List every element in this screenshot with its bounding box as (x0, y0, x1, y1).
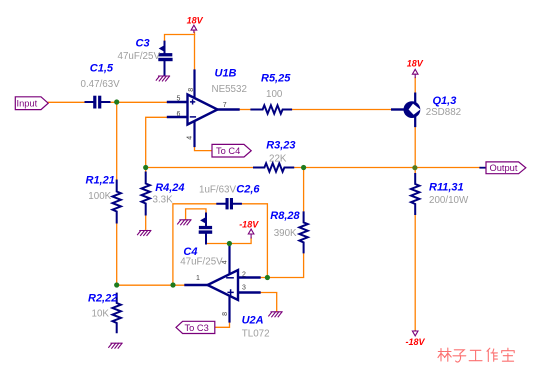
resistor R1,21 100K (113, 181, 121, 223)
wire 18V branch to C3 (165, 35, 195, 42)
wire C1 to U1B pin5 (110, 101, 169, 103)
svg-text:6: 6 (177, 111, 181, 118)
svg-text:U1B: U1B (215, 67, 237, 79)
wire 18V to Q1 collector (414, 78, 416, 94)
ground below R4 (138, 231, 151, 236)
svg-text:2SD882: 2SD882 (426, 107, 461, 118)
resistor R5,25 100 (horizontal) (251, 105, 291, 113)
wire R3 to output port (293, 167, 480, 169)
svg-text:R3,23: R3,23 (266, 139, 295, 151)
svg-text:390K: 390K (274, 228, 297, 239)
junction input node (114, 99, 119, 104)
resistor R8,28 390K (299, 212, 307, 252)
junction R8 top (301, 165, 306, 170)
power +18V symbol (U1B) (191, 25, 197, 32)
svg-text:R4,24: R4,24 (155, 182, 184, 194)
svg-text:R5,25: R5,25 (261, 73, 291, 85)
svg-text:4: 4 (222, 260, 229, 264)
wire R11 to -18V (414, 214, 416, 331)
junction C2 left node (170, 282, 175, 287)
capacitor C1,5 0.47/63V (86, 96, 110, 109)
wire R5 to Q1 base (291, 109, 392, 111)
wire pin2 node to R8 (260, 252, 304, 277)
wire R4 to ground (145, 215, 147, 230)
resistor R2,22 10K (113, 294, 121, 333)
svg-text:To C3: To C3 (185, 323, 209, 333)
wire R8 top to feedback line (303, 168, 305, 213)
svg-text:8: 8 (222, 312, 229, 316)
port To C4 (212, 144, 251, 157)
junction U2A pin2 node (265, 275, 270, 280)
resistor R11,31 200/10W (411, 174, 419, 214)
op-amp U2A TL072 (mirrored) (186, 244, 260, 322)
capacitor C2,6 1uF/63V (217, 198, 241, 209)
transistor Q1,3 2SD882 (392, 94, 420, 126)
svg-text:C2,6: C2,6 (236, 184, 260, 196)
power -18V symbol (bottom) (412, 331, 418, 336)
svg-text:To C4: To C4 (216, 146, 240, 156)
wire U1B pin4 to port To C4 (195, 146, 213, 151)
svg-text:10K: 10K (92, 309, 110, 320)
op-amp U1B NE5532 (168, 71, 239, 147)
wire C4 bottom to -18V node (206, 238, 251, 244)
wire output node to R11 (414, 168, 416, 175)
ground left of C4 (178, 220, 191, 225)
svg-text:5: 5 (177, 96, 181, 103)
svg-text:100K: 100K (88, 191, 111, 202)
output stub (480, 167, 486, 169)
junction C4 / -18V node (227, 241, 232, 246)
svg-text:100: 100 (266, 89, 283, 100)
svg-text:18V: 18V (407, 59, 424, 69)
port Input (15, 97, 48, 110)
junction R4 top (143, 165, 148, 170)
port To C3 (176, 321, 215, 333)
wire node to C2 left (173, 204, 217, 285)
wire U2A pin3 to ground (260, 293, 277, 312)
junction R1/R2 node (114, 282, 119, 287)
svg-text:Q1,3: Q1,3 (433, 95, 457, 107)
resistor R3,23 22K (horizontal) (254, 163, 293, 171)
capacitor C3 47uF/25V (polarized) (158, 42, 172, 75)
svg-text:NE5532: NE5532 (212, 84, 247, 95)
wire junction to R4 (145, 168, 147, 173)
wire feedback line left of R3 (146, 167, 254, 169)
wire U2A pin8 to port To C3 (215, 322, 230, 328)
resistor R4,24 3.3K (142, 173, 150, 215)
svg-text:R11,31: R11,31 (429, 182, 464, 194)
wire node down to R1 (116, 102, 118, 181)
svg-text:0.47/63V: 0.47/63V (81, 79, 121, 90)
ground below U2A pin3 (269, 312, 282, 317)
svg-text:1uF/63V: 1uF/63V (199, 184, 237, 195)
ground below C3 (156, 76, 169, 81)
wire U1B pin7 to R5 (239, 109, 252, 111)
svg-text:2: 2 (242, 271, 246, 278)
svg-text:47uF/25V: 47uF/25V (118, 51, 161, 62)
capacitor C4 47uF/25V (polarized) (199, 214, 213, 244)
svg-text:-18V: -18V (406, 337, 426, 347)
wire pin6 net (146, 117, 168, 167)
junction output node (412, 165, 417, 170)
svg-text:R8,28: R8,28 (270, 210, 300, 222)
power +18V symbol (Q1) (412, 69, 418, 77)
watermark 林子工作室 (438, 348, 514, 362)
wire C2 right to pin2 node (241, 204, 268, 278)
svg-text:3.3K: 3.3K (153, 194, 174, 205)
wire bottom node to U2A pin1 (117, 284, 186, 286)
svg-text:1: 1 (196, 275, 200, 282)
svg-text:TL072: TL072 (242, 329, 270, 340)
power -18V symbol (C4 area) (248, 229, 254, 238)
svg-text:22K: 22K (269, 153, 287, 164)
svg-text:47uF/25V: 47uF/25V (180, 256, 223, 267)
wire R1 to bottom node (116, 223, 118, 286)
wire 18V rail to U1B pin8 (194, 32, 196, 70)
wire input to C1 (48, 101, 85, 103)
svg-text:18V: 18V (187, 16, 204, 26)
svg-text:C3: C3 (136, 37, 150, 49)
ground below R2 (109, 343, 122, 348)
svg-text:4: 4 (187, 136, 194, 140)
wire Q1 emitter to output node (414, 126, 416, 168)
svg-text:R1,21: R1,21 (86, 174, 115, 186)
svg-text:8: 8 (188, 88, 195, 92)
svg-text:-18V: -18V (239, 220, 259, 230)
port Output (486, 162, 526, 174)
svg-text:R2,22: R2,22 (88, 293, 117, 305)
svg-text:Input: Input (17, 99, 38, 109)
svg-text:7: 7 (223, 102, 227, 109)
svg-text:200/10W: 200/10W (429, 195, 469, 206)
wire C4 top to ground (186, 209, 206, 219)
svg-text:Output: Output (490, 163, 518, 173)
svg-text:C1,5: C1,5 (90, 63, 114, 75)
svg-text:U2A: U2A (242, 315, 264, 327)
svg-text:3: 3 (242, 284, 246, 291)
